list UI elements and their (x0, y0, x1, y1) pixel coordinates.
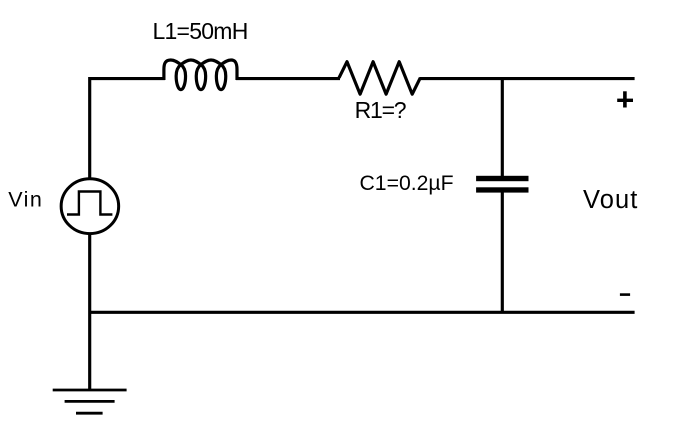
wire: bottom rail (90, 311, 635, 314)
svg-text:L1=50mH: L1=50mH (152, 18, 247, 44)
pulse waveform symbol inside source (67, 192, 112, 215)
plus terminal label (617, 91, 633, 107)
wire: resistor to right end of top rail (420, 77, 635, 80)
svg-text:Vin: Vin (8, 188, 43, 212)
wire: source bottom to ground (through bottom-rail tee) (88, 235, 91, 391)
svg-text:C1=0.2µF: C1=0.2µF (360, 172, 454, 195)
wire: inductor to resistor (236, 77, 340, 80)
minus terminal label (620, 293, 630, 296)
inductor L1 coil (164, 60, 237, 90)
svg-text:R1=?: R1=? (355, 97, 406, 123)
ground symbol (53, 390, 127, 413)
resistor R1 zigzag (339, 62, 420, 94)
wire: capacitor branch upper (top rail to top plate) (501, 79, 504, 177)
voltage source Vin circle (61, 179, 119, 234)
wire: top rail left segment (corner from Vin up to inductor) (90, 79, 165, 179)
svg-text:Vout: Vout (583, 186, 638, 214)
capacitor C1 plates (476, 176, 528, 193)
wire: capacitor branch lower (bottom plate to bottom rail) (501, 192, 504, 312)
